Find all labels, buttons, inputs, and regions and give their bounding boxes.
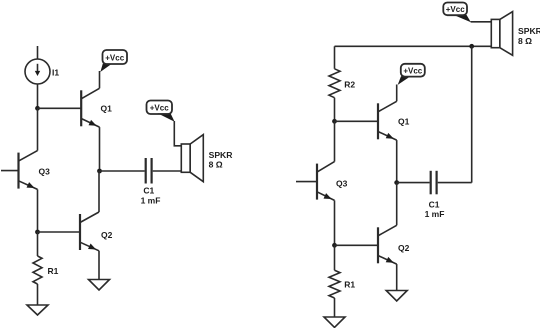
speaker SPKR (left) bbox=[181, 135, 203, 182]
transistor Q1 (right) bbox=[378, 101, 397, 141]
svg-text:1 mF: 1 mF bbox=[141, 195, 161, 205]
svg-text:R1: R1 bbox=[48, 266, 59, 276]
power flag +Vcc (left Q1) bbox=[100, 50, 127, 72]
wire I1 to node bbox=[37, 84, 39, 108]
svg-text:8 Ω: 8 Ω bbox=[518, 36, 532, 46]
svg-text:I1: I1 bbox=[52, 68, 59, 78]
wire C1 to speaker bbox=[153, 170, 182, 172]
node (Q3 emitter / R1 / Q2 base) bbox=[35, 230, 40, 235]
svg-text:8 Ω: 8 Ω bbox=[209, 159, 223, 169]
wire node to C1 bbox=[397, 182, 430, 184]
svg-text:SPKR: SPKR bbox=[209, 150, 234, 160]
node (R2 / Q1 base / Q3 collector) bbox=[332, 119, 337, 124]
current source I1 bbox=[25, 59, 50, 84]
wire top stub above I1 bbox=[37, 46, 39, 59]
wire R2 bottom to node bbox=[334, 98, 336, 122]
wire node to C1 bbox=[100, 170, 145, 172]
ground (right R1) bbox=[324, 317, 345, 327]
ground (right Q2) bbox=[386, 291, 407, 302]
ground (left R1) bbox=[27, 305, 48, 315]
wire node down to Q3 collector bbox=[334, 121, 336, 161]
wire Q1 emitter down to node bbox=[99, 127, 101, 171]
transistor Q2 (left) bbox=[80, 212, 99, 252]
resistor R2 bbox=[329, 69, 340, 98]
wire top rail (R2 to speaker) bbox=[335, 45, 492, 47]
wire Q2 collector up to node bbox=[98, 171, 100, 212]
wire Q1 collector up bbox=[99, 71, 101, 88]
svg-text:+Vcc: +Vcc bbox=[150, 104, 169, 113]
svg-text:Q1: Q1 bbox=[101, 104, 113, 114]
svg-text:Q2: Q2 bbox=[101, 230, 113, 240]
wire node to R1 bbox=[334, 245, 336, 270]
wire node to Q2 base bbox=[38, 231, 81, 233]
svg-text:R1: R1 bbox=[344, 280, 355, 290]
capacitor C1 (left) bbox=[146, 158, 152, 184]
wire R1 to ground bbox=[334, 298, 336, 317]
resistor R1 (left) bbox=[33, 256, 42, 284]
wire flag to speaker top bbox=[174, 121, 181, 146]
wire Q3 base stub bbox=[296, 181, 317, 183]
svg-text:C1: C1 bbox=[143, 186, 154, 196]
resistor R1 (right) bbox=[329, 270, 340, 298]
svg-text:+Vcc: +Vcc bbox=[105, 53, 124, 62]
power flag +Vcc (right Q1) bbox=[398, 64, 425, 85]
wire node to R1 bbox=[37, 232, 39, 256]
svg-text:SPKR: SPKR bbox=[518, 26, 540, 36]
svg-text:Q3: Q3 bbox=[336, 179, 348, 189]
wire R2 top bbox=[334, 46, 336, 69]
wire flag to speaker top bbox=[471, 21, 492, 23]
node (Q1 emitter / Q2 collector / C1) bbox=[97, 169, 102, 174]
transistor Q3 (left) bbox=[19, 151, 38, 191]
power flag +Vcc (right speaker) bbox=[443, 3, 471, 23]
power flag +Vcc (left speaker) bbox=[147, 101, 175, 122]
svg-text:1 mF: 1 mF bbox=[425, 209, 445, 219]
svg-text:+Vcc: +Vcc bbox=[403, 66, 422, 75]
transistor Q1 (left) bbox=[81, 88, 99, 128]
wire Q1 collector up bbox=[396, 85, 398, 102]
wire Q2 emitter down bbox=[98, 251, 100, 280]
node (Q1 emitter / Q2 collector / C1) bbox=[394, 180, 399, 185]
wire Q2 emitter down bbox=[396, 264, 398, 290]
wire node to Q1 base bbox=[335, 120, 379, 122]
capacitor C1 (right) bbox=[431, 171, 437, 195]
svg-text:+Vcc: +Vcc bbox=[446, 5, 465, 14]
svg-text:R2: R2 bbox=[344, 79, 355, 89]
wire Q3 emitter down to node bbox=[334, 200, 336, 245]
node (Q3 emitter / R1 / Q2 base) bbox=[332, 243, 337, 248]
node (top rail / output) bbox=[469, 44, 474, 49]
wire right vertical (speaker node to C1) bbox=[471, 46, 473, 182]
transistor Q2 (right) bbox=[378, 225, 397, 265]
wire Q2 collector up to node bbox=[396, 183, 398, 226]
wire Q3 base stub bbox=[1, 170, 19, 172]
ground (left Q2) bbox=[89, 280, 110, 291]
wire node to Q2 base bbox=[335, 244, 379, 246]
wire C1 to right vertical bbox=[438, 182, 472, 184]
speaker SPKR (right) bbox=[491, 12, 512, 56]
transistor Q3 (right) bbox=[317, 162, 335, 202]
svg-text:Q2: Q2 bbox=[398, 243, 410, 253]
node (I1 / Q1 base / Q3 collector) bbox=[35, 106, 40, 111]
wire R1 to ground bbox=[37, 284, 39, 305]
svg-text:C1: C1 bbox=[429, 200, 440, 210]
wire node to Q1 base bbox=[38, 107, 82, 109]
svg-text:Q1: Q1 bbox=[398, 117, 410, 127]
wire Q1 emitter down to node bbox=[396, 140, 398, 183]
wire node down to Q3 collector bbox=[37, 108, 39, 150]
wire Q3 emitter down to node bbox=[37, 189, 39, 232]
svg-text:Q3: Q3 bbox=[39, 167, 51, 177]
